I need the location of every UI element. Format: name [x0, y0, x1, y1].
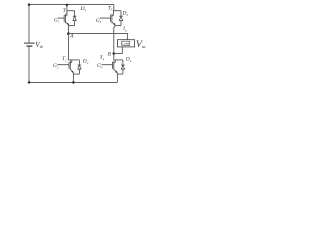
diode D2 (antiparallel) [78, 60, 82, 74]
wire T1 emitter rejoin [69, 25, 75, 27]
wire node A to load top [68, 34, 127, 40]
diode D1 (antiparallel) [73, 11, 77, 26]
diode D3 (antiparallel) [119, 11, 123, 26]
wire T2 collector split [68, 59, 79, 61]
junction dot top-left [28, 3, 31, 6]
svg-text:A: A [69, 34, 74, 40]
wire left leg upper [66, 4, 68, 10]
junction dot top of left leg [66, 4, 69, 7]
wire source positive lead [28, 4, 30, 42]
wire T3 collector split [114, 10, 121, 12]
wire T1 emitter to node A [68, 26, 70, 34]
wire node B to T4 [113, 54, 115, 60]
transistor T2 (IGBT) [58, 60, 74, 74]
wire load bottom to node B [114, 47, 123, 54]
wire node A to T2 [67, 34, 69, 60]
wire T4 emitter to bottom rail [116, 74, 118, 82]
transistor T4 (IGBT) [102, 60, 118, 74]
transistor T1 (IGBT) [58, 11, 69, 26]
junction dot bottom of left leg [72, 81, 75, 84]
junction dot bottom-left [28, 81, 31, 84]
diode D4 (antiparallel) [121, 60, 125, 74]
transistor T3 (IGBT) [100, 11, 115, 26]
wire T1 collector split [67, 10, 75, 12]
wire T3 emitter to node B [114, 26, 115, 54]
wire bottom rail [29, 81, 117, 83]
node B [113, 52, 116, 55]
load box [117, 40, 134, 47]
svg-text:Load: Load [122, 41, 129, 45]
wire T3 emitter rejoin [115, 25, 121, 27]
wire top rail [29, 3, 114, 5]
wire right leg upper [113, 4, 115, 10]
battery Vdc [24, 42, 35, 44]
wire source negative lead [28, 47, 30, 83]
wire T4 emitter rejoin [117, 73, 123, 75]
wire T2 emitter rejoin [73, 73, 79, 75]
node A [67, 32, 70, 35]
wire T2 emitter to bottom rail [72, 74, 74, 82]
wire T4 collector split [114, 59, 123, 61]
